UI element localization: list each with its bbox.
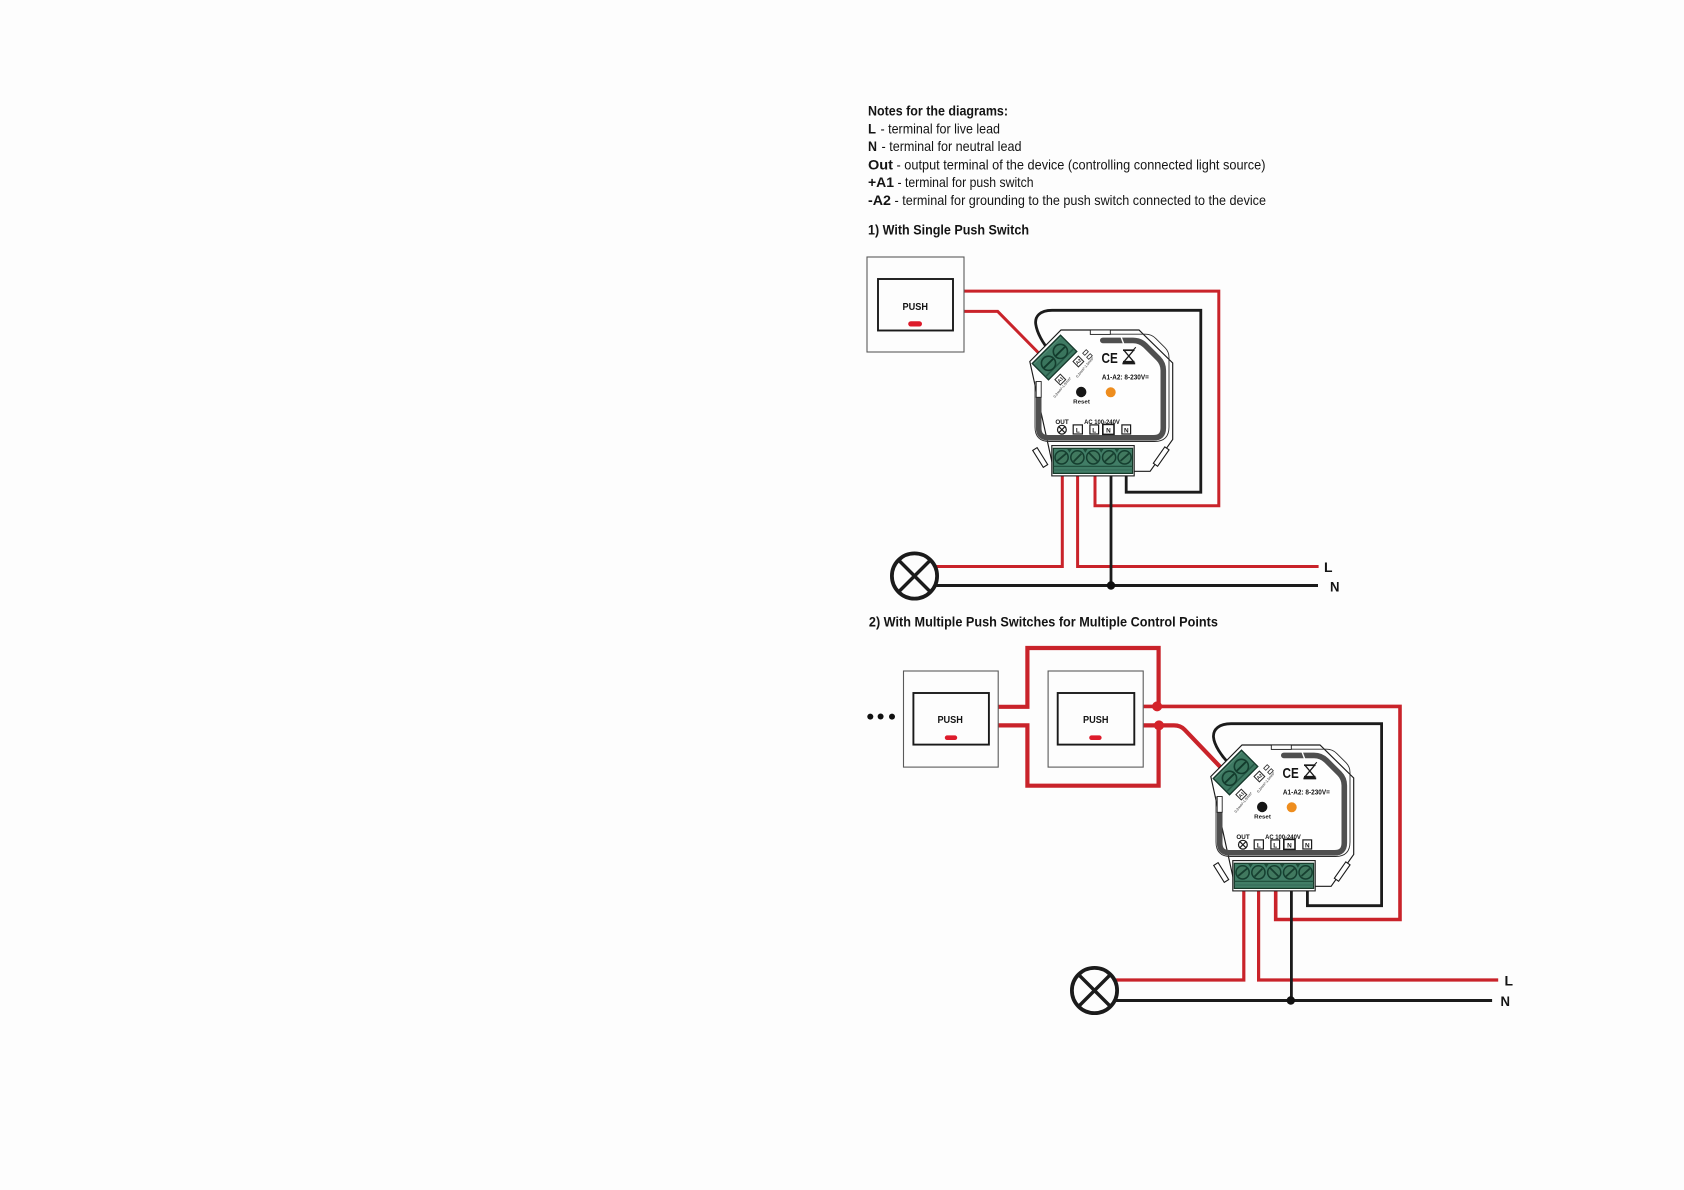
svg-text:L: L <box>1505 974 1514 989</box>
svg-text:- output terminal of the devic: - output terminal of the device (control… <box>897 156 1266 172</box>
svg-text:N: N <box>1501 994 1511 1009</box>
svg-text:PUSH: PUSH <box>903 302 929 313</box>
svg-text:1) With Single Push Switch: 1) With Single Push Switch <box>868 221 1029 237</box>
svg-text:N: N <box>1330 580 1340 595</box>
svg-text:- terminal for live lead: - terminal for live lead <box>881 121 1001 137</box>
svg-text:+A1: +A1 <box>868 174 894 190</box>
svg-text:PUSH: PUSH <box>1083 715 1109 726</box>
svg-text:-A2: -A2 <box>868 192 891 208</box>
svg-text:- terminal for grounding to th: - terminal for grounding to the push swi… <box>895 192 1267 208</box>
svg-text:2) With Multiple Push Switches: 2) With Multiple Push Switches for Multi… <box>869 613 1218 629</box>
svg-text:- terminal for neutral lead: - terminal for neutral lead <box>882 138 1022 154</box>
svg-text:Out: Out <box>868 156 893 172</box>
svg-text:PUSH: PUSH <box>937 715 963 726</box>
svg-text:- terminal for push switch: - terminal for push switch <box>898 174 1034 190</box>
svg-text:L: L <box>868 121 876 137</box>
svg-text:N: N <box>868 138 877 154</box>
svg-text:L: L <box>1324 560 1333 575</box>
svg-text:Notes for the diagrams:: Notes for the diagrams: <box>868 103 1008 119</box>
